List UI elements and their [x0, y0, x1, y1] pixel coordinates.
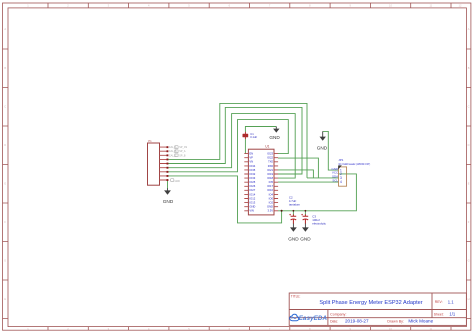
svg-text:H: H [4, 297, 6, 301]
svg-text:2019-08-27: 2019-08-27 [345, 319, 369, 324]
svg-text:6: 6 [229, 4, 231, 8]
svg-text:IO21: IO21 [267, 168, 273, 172]
svg-text:G: G [4, 259, 6, 263]
svg-text:D: D [4, 143, 6, 147]
svg-text:GND: GND [288, 237, 299, 242]
svg-text:EasyEDA: EasyEDA [299, 315, 328, 322]
svg-text:IO27: IO27 [249, 188, 255, 192]
svg-text:9: 9 [349, 4, 351, 8]
svg-text:IO14: IO14 [249, 192, 255, 196]
svg-text:GND: GND [300, 237, 311, 242]
svg-text:A: A [4, 27, 6, 31]
svg-text:IO18: IO18 [267, 176, 273, 180]
svg-text:1/1: 1/1 [449, 312, 455, 317]
svg-text:E: E [4, 182, 6, 186]
svg-text:JP1: JP1 [338, 158, 343, 162]
svg-text:RX0: RX0 [268, 164, 274, 168]
svg-text:SP_CS: SP_CS [179, 146, 187, 149]
svg-text:IO23: IO23 [267, 152, 273, 156]
svg-text:1.1: 1.1 [448, 299, 454, 304]
svg-text:B: B [4, 66, 6, 70]
svg-text:3.3V: 3.3V [267, 209, 273, 213]
svg-text:IO26: IO26 [249, 184, 255, 188]
svg-text:IO0: IO0 [269, 196, 274, 200]
svg-text:7: 7 [269, 4, 271, 8]
svg-text:IO2: IO2 [269, 201, 274, 205]
svg-text:F: F [4, 220, 6, 224]
svg-text:IO16: IO16 [267, 188, 273, 192]
svg-text:C: C [4, 105, 6, 109]
svg-text:2: 2 [67, 4, 69, 8]
svg-text:4: 4 [340, 180, 342, 184]
svg-text:C: C [468, 105, 470, 109]
svg-text:GND: GND [317, 146, 328, 151]
svg-text:IO35: IO35 [249, 168, 255, 172]
svg-text:VN: VN [249, 160, 253, 164]
svg-text:Date:: Date: [330, 319, 338, 323]
svg-text:G: G [468, 259, 470, 263]
svg-text:Sheet:: Sheet: [434, 312, 444, 316]
svg-text:tantalum: tantalum [289, 203, 301, 207]
svg-text:SP_B: SP_B [179, 154, 186, 157]
svg-text:GND: GND [269, 135, 280, 140]
svg-text:U1: U1 [265, 145, 269, 149]
svg-text:electrolytic: electrolytic [312, 222, 326, 226]
svg-text:10: 10 [389, 4, 392, 8]
svg-text:IO4: IO4 [269, 192, 274, 196]
svg-text:GND: GND [163, 199, 174, 204]
svg-text:F: F [468, 220, 470, 224]
svg-text:0.1uF: 0.1uF [250, 135, 257, 139]
svg-text:5: 5 [188, 4, 190, 8]
svg-text:1: 1 [27, 4, 29, 8]
svg-text:Mick Moane: Mick Moane [408, 319, 433, 324]
svg-text:EN: EN [249, 152, 253, 156]
svg-text:IO34: IO34 [249, 164, 255, 168]
svg-text:D: D [468, 143, 470, 147]
svg-text:12: 12 [459, 4, 462, 8]
svg-text:TX0: TX0 [268, 160, 273, 164]
svg-text:IO25: IO25 [249, 180, 255, 184]
svg-text:SP_A: SP_A [179, 150, 186, 153]
svg-text:11: 11 [429, 4, 432, 8]
svg-text:3: 3 [108, 4, 110, 8]
svg-text:Company:: Company: [330, 312, 346, 316]
svg-text:B: B [468, 66, 470, 70]
svg-text:IO13: IO13 [249, 201, 255, 205]
svg-text:IO33: IO33 [249, 176, 255, 180]
svg-text:GND: GND [175, 180, 181, 183]
svg-text:A: A [468, 27, 470, 31]
svg-text:E: E [468, 182, 470, 186]
svg-text:VIN: VIN [249, 209, 254, 213]
svg-text:GND: GND [267, 205, 273, 209]
svg-text:IO19: IO19 [267, 172, 273, 176]
svg-text:4: 4 [148, 4, 150, 8]
svg-text:8: 8 [309, 4, 311, 8]
svg-text:TITLE:: TITLE: [291, 294, 301, 298]
svg-text:H: H [468, 297, 470, 301]
svg-text:REV:: REV: [435, 300, 443, 304]
svg-text:GND: GND [249, 205, 255, 209]
svg-text:P1: P1 [148, 139, 152, 143]
svg-text:IO32: IO32 [249, 172, 255, 176]
svg-text:IO5: IO5 [269, 180, 274, 184]
svg-text:IO17: IO17 [267, 184, 273, 188]
svg-text:IO12: IO12 [249, 196, 255, 200]
svg-text:SCL: SCL [332, 178, 338, 182]
svg-text:I2C OLED Header (128X64 0.96"): I2C OLED Header (128X64 0.96") [338, 162, 370, 166]
svg-text:Split Phase Energy Meter ESP32: Split Phase Energy Meter ESP32 Adapter [319, 300, 422, 306]
svg-text:VP: VP [249, 156, 253, 160]
svg-text:Drawn By:: Drawn By: [387, 319, 404, 323]
svg-text:IO22: IO22 [267, 156, 273, 160]
